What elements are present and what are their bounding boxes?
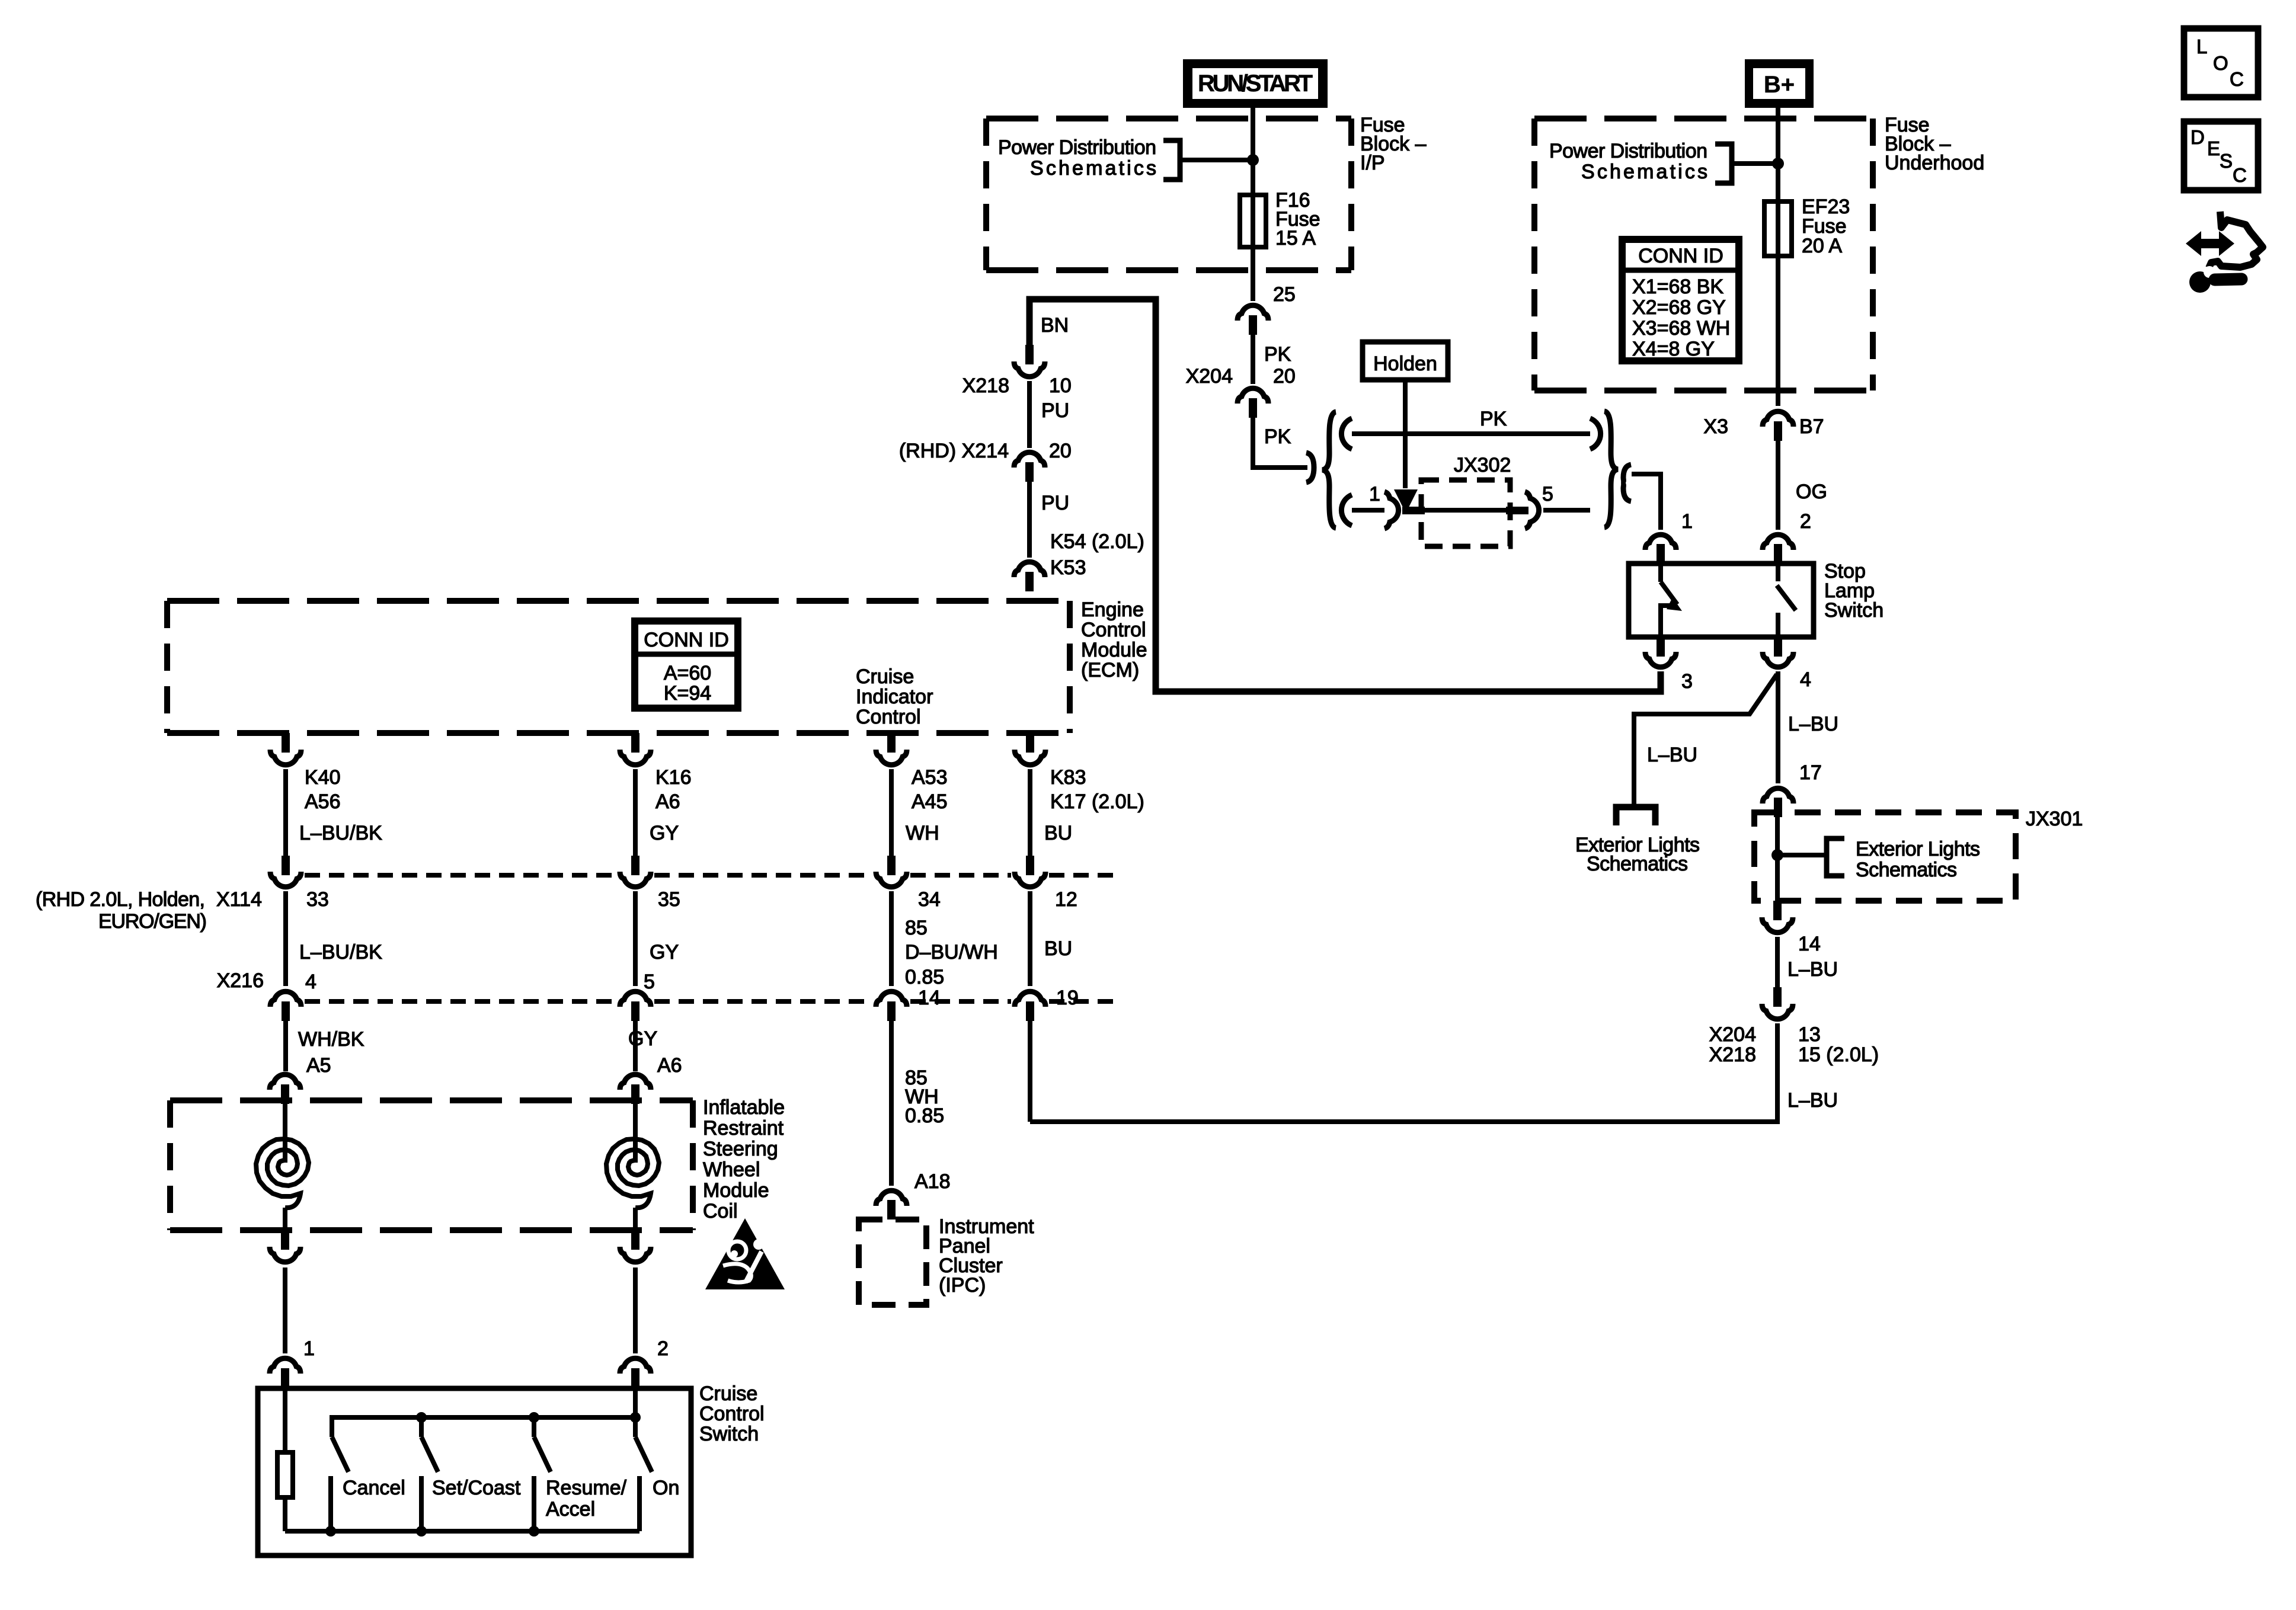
wire PK 25 to X204 [1251, 335, 1255, 384]
bracket Power Distribution Schematics [1163, 140, 1180, 180]
node junction on B+ wire [1772, 158, 1784, 169]
svg-text:A45: A45 [912, 790, 948, 813]
ECM dashed box [167, 601, 1070, 733]
svg-text:Schematics: Schematics [1856, 859, 1957, 881]
wire PU [1027, 381, 1032, 448]
wire resistor to bus [283, 1497, 287, 1531]
svg-text:1: 1 [1681, 510, 1693, 533]
connector X216-4 [270, 991, 301, 1007]
svg-text:2: 2 [1800, 510, 1811, 533]
connector X114-33 [282, 856, 290, 875]
svg-text:X218: X218 [1709, 1044, 1756, 1066]
svg-text:C: C [2230, 68, 2244, 90]
label box Holden [1363, 342, 1448, 380]
svg-text:K40: K40 [305, 766, 341, 789]
svg-text:A53: A53 [912, 766, 948, 789]
svg-text:34: 34 [918, 888, 941, 911]
svg-text:On: On [653, 1477, 679, 1499]
svg-text:PK: PK [1480, 408, 1507, 430]
svg-text:A=60: A=60 [664, 662, 711, 684]
svg-text:Resume/: Resume/ [546, 1477, 627, 1499]
svg-text:Holden: Holden [1373, 353, 1437, 375]
svg-text:4: 4 [305, 971, 316, 993]
svg-text:A56: A56 [305, 790, 341, 813]
svg-text:L–BU/BK: L–BU/BK [299, 941, 382, 964]
svg-text:K54 (2.0L): K54 (2.0L) [1050, 530, 1144, 553]
svg-text:25: 25 [1273, 283, 1296, 306]
svg-text:Power Distribution: Power Distribution [1549, 140, 1707, 162]
svg-text:BU: BU [1044, 822, 1072, 844]
wire to Power Distribution bracket [1180, 158, 1253, 162]
power label B+ [1745, 59, 1814, 108]
svg-text:1: 1 [303, 1337, 315, 1360]
connector pin 4 [1774, 637, 1782, 657]
svg-text:X216: X216 [217, 969, 264, 992]
svg-text:X204: X204 [1709, 1023, 1756, 1046]
CONN ID table ECM [635, 621, 738, 708]
svg-text:K17 (2.0L): K17 (2.0L) [1050, 790, 1144, 813]
svg-text:14: 14 [1798, 933, 1821, 955]
switch Resume/Accel [532, 1417, 536, 1437]
svg-text:X3: X3 [1703, 415, 1728, 438]
svg-text:S: S [2220, 150, 2233, 172]
connector below coil left [281, 1230, 289, 1250]
wire pin 3 to ECM loop [1029, 299, 1661, 692]
connector X216-5 [620, 991, 651, 1007]
bracket Exterior Lights Schematics [1827, 838, 1844, 876]
icon LOC [2184, 28, 2258, 97]
svg-text:14: 14 [918, 987, 941, 1009]
connector pin 3 [1657, 637, 1665, 657]
svg-text:PK: PK [1264, 425, 1291, 448]
svg-text:Power Distribution: Power Distribution [998, 136, 1156, 159]
arrow Holden [1403, 380, 1408, 488]
svg-text:L–BU/BK: L–BU/BK [299, 822, 382, 844]
connector X114-12 [1026, 856, 1034, 875]
svg-text:Accel: Accel [546, 1498, 595, 1521]
female cup JX302 pin1 [1384, 492, 1399, 529]
wire RUN/START to fuse F16 [1251, 108, 1255, 301]
connector 14 [1773, 901, 1782, 920]
svg-text:C: C [2233, 164, 2247, 186]
fuse EF23 [1764, 201, 1792, 256]
switch contact right [1776, 564, 1780, 581]
wire L-BU bottom run [1030, 1023, 1777, 1122]
svg-text:GY: GY [650, 822, 679, 844]
switch contact left [1658, 564, 1663, 582]
svg-text:33: 33 [306, 888, 329, 911]
connector X216-19 [1015, 991, 1045, 1007]
off page staple exterior lights [1616, 807, 1655, 825]
bottom jumper wire right segment [1543, 508, 1590, 513]
connector below coil right [631, 1230, 639, 1250]
row dashed line X216 [305, 999, 616, 1004]
svg-text:A6: A6 [655, 790, 680, 813]
svg-text:85: 85 [905, 917, 928, 939]
connector A53 [887, 733, 896, 753]
connector X114-34 [887, 856, 896, 875]
connector pin 1 [1645, 534, 1676, 550]
wire break top PK wire left [1341, 418, 1352, 449]
svg-text:15 (2.0L): 15 (2.0L) [1798, 1044, 1879, 1066]
connector X204 pin 20 [1237, 388, 1268, 404]
IPC dashed box [859, 1219, 926, 1305]
svg-text:WH/BK: WH/BK [298, 1028, 364, 1051]
wire 85 WH 0.85 to IPC [889, 1021, 894, 1186]
coil box dashed [170, 1100, 693, 1230]
svg-text:A18: A18 [914, 1170, 951, 1193]
bracket Power Distribution Schematics [1715, 144, 1732, 183]
wire OG to stop lamp pin 2 [1776, 441, 1780, 530]
svg-text:L–BU: L–BU [1647, 744, 1697, 766]
svg-text:O: O [2213, 52, 2228, 74]
svg-text:L–BU: L–BU [1787, 958, 1838, 981]
female cup JX302 pin5 [1525, 492, 1539, 529]
svg-text:20: 20 [1049, 440, 1072, 462]
wire through JX301 [1775, 817, 1780, 901]
wire break bottom wire left [1341, 495, 1352, 526]
icon adjust wrench [2186, 212, 2263, 293]
svg-text:3: 3 [1681, 670, 1693, 693]
row dashed line X114 [305, 873, 616, 878]
wire pin 4 down to 17 [1776, 671, 1780, 783]
wire PK X204 down right to brace [1253, 418, 1307, 468]
wire break top PK wire right [1590, 418, 1601, 449]
connector X204/X218 13/15 [1773, 987, 1782, 1007]
connector X214 pin 20 [1014, 452, 1045, 468]
coil right [606, 1100, 659, 1230]
node junction in JX301 [1771, 849, 1783, 861]
connector K16 [631, 733, 639, 753]
svg-text:OG: OG [1796, 481, 1827, 503]
power label RUN/START [1183, 59, 1328, 108]
switch Set/Coast [419, 1417, 424, 1437]
connector A6 [620, 1074, 651, 1090]
wire B+ to fuse EF23 [1776, 108, 1780, 406]
svg-text:1: 1 [1369, 483, 1380, 505]
svg-text:B7: B7 [1799, 415, 1824, 438]
svg-text:Cancel: Cancel [343, 1477, 405, 1499]
wire WH/BK A5 [283, 1021, 288, 1071]
airbag warning triangle [705, 1218, 785, 1289]
connector cruise pin 2 [620, 1358, 651, 1374]
switch Cancel [332, 1437, 348, 1472]
branch diagonal to exterior lights [1634, 674, 1777, 805]
fuse block I/P dashed box [986, 119, 1351, 270]
wire PU lower [1027, 482, 1032, 558]
svg-text:2: 2 [657, 1337, 669, 1360]
svg-text:Set/Coast: Set/Coast [432, 1477, 521, 1499]
wire from brace to stop lamp pin 1 [1632, 474, 1661, 530]
svg-text:L–BU: L–BU [1787, 1089, 1838, 1112]
svg-text:12: 12 [1055, 888, 1077, 911]
svg-text:10: 10 [1049, 375, 1072, 397]
JX302 dashed box [1421, 480, 1510, 546]
male bar JX302 pin1 [1402, 507, 1425, 514]
connector pin 2 [1763, 534, 1793, 550]
node dots bottom bus [325, 1526, 336, 1537]
svg-text:BU: BU [1044, 937, 1072, 960]
svg-text:GY: GY [650, 941, 679, 964]
svg-text:19: 19 [1056, 987, 1079, 1009]
svg-text:A5: A5 [306, 1054, 331, 1077]
wire BU 19 to bottom run [1028, 1021, 1032, 1122]
svg-text:(RHD 2.0L, Holden,: (RHD 2.0L, Holden, [36, 888, 205, 911]
bottom jumper wire left segment [1352, 508, 1384, 513]
svg-text:CONN ID: CONN ID [1638, 245, 1723, 267]
connector K83 [1026, 733, 1034, 753]
wire to pin 1 [283, 1267, 287, 1353]
svg-text:Exterior Lights: Exterior Lights [1856, 838, 1980, 860]
switch On [635, 1437, 652, 1472]
wire GY A6 [633, 1021, 638, 1071]
connector A18 [876, 1190, 907, 1206]
svg-text:5: 5 [644, 971, 655, 993]
JX301 dashed box [1754, 812, 2016, 901]
top PK wire [1352, 431, 1590, 436]
svg-text:4: 4 [1800, 668, 1811, 691]
svg-text:17: 17 [1799, 761, 1822, 784]
svg-text:(RHD) X214: (RHD) X214 [899, 440, 1009, 462]
svg-text:D–BU/WH: D–BU/WH [905, 941, 998, 964]
svg-text:5: 5 [1542, 483, 1553, 505]
svg-text:K83: K83 [1050, 766, 1086, 789]
connector K53 into ECM [1014, 562, 1045, 577]
svg-text:X114: X114 [216, 888, 262, 911]
svg-text:Schematics: Schematics [1581, 161, 1707, 183]
svg-text:X204: X204 [1186, 365, 1233, 388]
small brace end of PK wire [1306, 453, 1314, 482]
svg-text:BN: BN [1041, 314, 1069, 337]
node junction on RUN/START wire [1247, 154, 1259, 166]
svg-text:PU: PU [1041, 399, 1069, 422]
connector K40 [282, 733, 290, 753]
big left brace [1322, 412, 1336, 528]
svg-text:13: 13 [1798, 1023, 1821, 1046]
svg-text:K16: K16 [655, 766, 692, 789]
fuse F16 [1240, 195, 1266, 247]
svg-text:EngineControlModule(ECM): EngineControlModule(ECM) [1081, 598, 1147, 681]
svg-text:A6: A6 [657, 1054, 682, 1077]
svg-text:Schematics: Schematics [1030, 157, 1156, 180]
svg-text:CruiseControlSwitch: CruiseControlSwitch [699, 1382, 765, 1445]
connector X3 pin B7 [1763, 411, 1793, 427]
jumper middle wire [1425, 508, 1506, 513]
wire to Power Distribution bracket [1732, 161, 1778, 166]
svg-text:L–BU: L–BU [1788, 713, 1838, 735]
svg-text:L: L [2196, 36, 2207, 57]
male bar JX302 pin5 [1506, 507, 1528, 514]
svg-text:JX302: JX302 [1454, 454, 1511, 476]
top bus [332, 1417, 635, 1437]
svg-text:0.85: 0.85 [905, 966, 944, 988]
svg-text:K53: K53 [1050, 556, 1086, 579]
bottom bus [285, 1529, 639, 1534]
svg-text:EURO/GEN): EURO/GEN) [98, 910, 207, 933]
connector X114-35 [631, 856, 639, 875]
svg-text:Schematics: Schematics [1587, 853, 1688, 875]
icon DESC [2184, 121, 2258, 190]
resistor [277, 1452, 293, 1497]
connector 25 [1237, 305, 1268, 321]
small brace before stop lamp wire [1622, 465, 1631, 501]
wire pin1 to resistor [283, 1388, 287, 1452]
svg-text:JX301: JX301 [2026, 808, 2083, 830]
svg-text:PU: PU [1041, 492, 1069, 514]
svg-text:K=94: K=94 [664, 682, 711, 705]
connector X216-14 [876, 991, 907, 1007]
connector cruise pin 1 [270, 1358, 300, 1374]
wire to bracket [1777, 853, 1827, 857]
svg-text:PK: PK [1264, 343, 1291, 366]
svg-text:E: E [2207, 137, 2220, 159]
cruise control switch box [258, 1388, 691, 1555]
svg-text:20: 20 [1273, 365, 1296, 388]
svg-text:WH: WH [906, 822, 939, 844]
wire pin2 into box [633, 1388, 638, 1437]
connector A5 [270, 1074, 300, 1090]
svg-text:B+: B+ [1764, 72, 1795, 98]
svg-text:D: D [2191, 126, 2205, 148]
coil left [256, 1100, 309, 1230]
svg-text:RUN/START: RUN/START [1198, 71, 1313, 97]
CONN ID table underhood [1622, 239, 1739, 361]
wire to pin 2 [633, 1267, 638, 1353]
fuse block underhood dashed box [1534, 119, 1873, 391]
svg-text:35: 35 [658, 888, 680, 911]
svg-text:X218: X218 [962, 375, 1009, 397]
stop lamp switch box [1629, 564, 1814, 637]
wire L-BU 14 to 13 [1775, 937, 1780, 991]
connector X218 pin 10 [1025, 345, 1034, 364]
svg-text:GY: GY [628, 1028, 657, 1050]
big right brace [1604, 411, 1618, 527]
svg-text:CONN ID: CONN ID [644, 629, 729, 651]
